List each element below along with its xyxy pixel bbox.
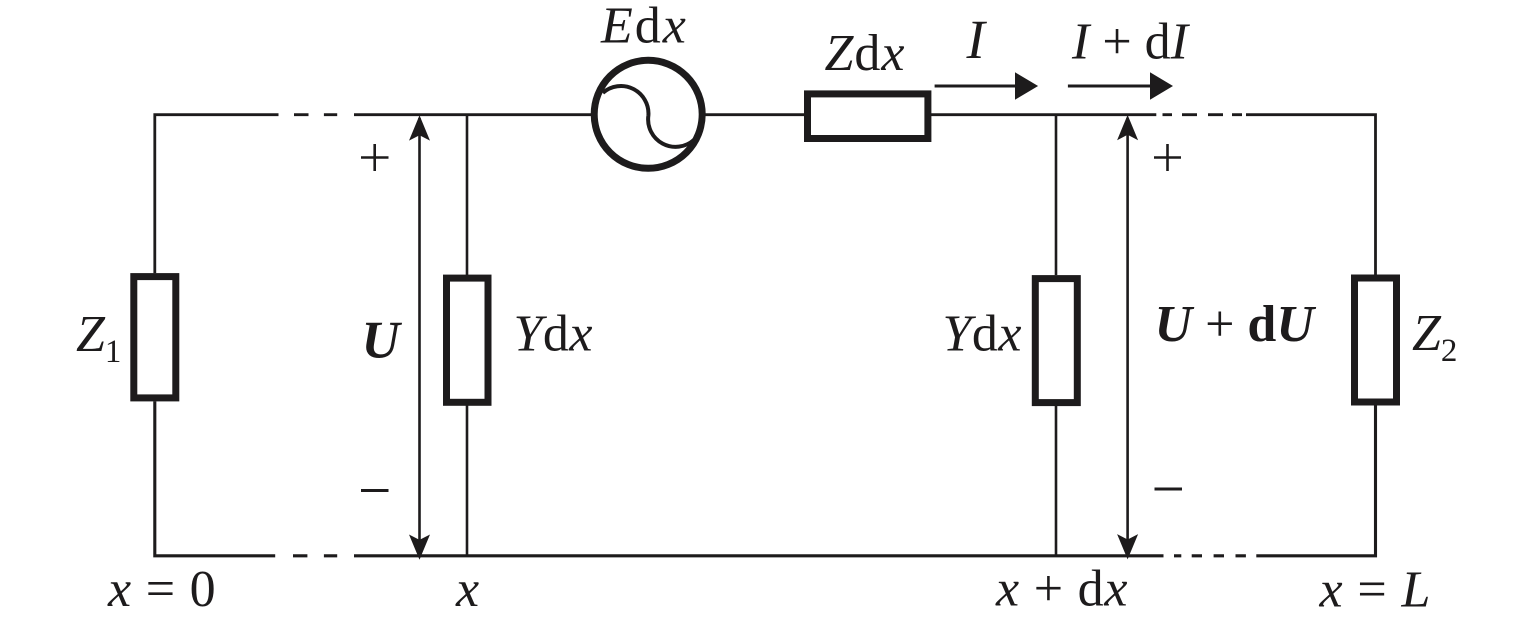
wire shunt branch at x+dx bottom — [1055, 403, 1058, 556]
wire top-left rail with left corner — [155, 115, 279, 274]
wire bottom-left dashed section — [293, 554, 337, 557]
wire top-left dashed section — [294, 113, 337, 116]
wire bottom-right dashed section — [1174, 554, 1246, 557]
svg-text:Ydx: Ydx — [514, 306, 594, 363]
svg-text:Edx: Edx — [600, 0, 688, 55]
svg-text:Ydx: Ydx — [943, 306, 1023, 363]
admittance Ydx right body — [1035, 279, 1077, 403]
minus sign at node x+dx — [1155, 488, 1183, 491]
wire Zdx to node x+dx — [929, 113, 1156, 116]
voltage arrow U+dU head down — [1117, 534, 1138, 559]
wire bottom-left rail — [155, 401, 275, 555]
wire shunt branch at x bottom — [466, 402, 469, 556]
wire AC source to Zdx — [703, 113, 806, 116]
plus sign at node x+dx — [1154, 144, 1181, 171]
wire top-right rail with right corner — [1246, 115, 1376, 275]
impedance Z1 body — [134, 277, 176, 398]
series impedance Zdx body — [808, 94, 928, 139]
current arrow I+dI head — [1150, 72, 1173, 99]
voltage arrow U head up — [409, 115, 430, 140]
minus sign at node x — [361, 489, 389, 492]
svg-text:U: U — [362, 312, 403, 370]
admittance Ydx left body — [447, 278, 489, 402]
wire shunt branch at x+dx top — [1055, 115, 1058, 275]
current arrow I head — [1015, 72, 1038, 99]
svg-text:x = 0: x = 0 — [107, 561, 216, 618]
plus sign at node x — [361, 144, 389, 171]
voltage arrow U head down — [409, 535, 430, 560]
wire shunt branch at x top — [466, 115, 469, 275]
wire bottom-right rail with right corner — [1256, 402, 1375, 556]
AC source sine wave — [603, 86, 694, 147]
current arrow I+dI shaft — [1068, 85, 1152, 88]
voltage arrow U shaft — [418, 118, 421, 556]
svg-text:x + dx: x + dx — [995, 561, 1128, 618]
wire top rail to AC source — [354, 113, 596, 116]
voltage arrow U+dU shaft — [1126, 118, 1129, 556]
current arrow I shaft — [935, 85, 1018, 88]
voltage arrow U+dU head up — [1117, 115, 1138, 140]
wire top-right dashed section — [1163, 113, 1243, 116]
svg-text:I + dI: I + dI — [1071, 14, 1191, 71]
svg-text:x: x — [455, 561, 479, 618]
wire bottom middle rail — [354, 554, 1164, 557]
AC source E circle — [594, 60, 702, 168]
impedance Z2 body — [1355, 278, 1397, 402]
svg-text:x = L: x = L — [1319, 562, 1432, 619]
svg-text:U + dU: U + dU — [1155, 296, 1317, 353]
svg-text:I: I — [966, 9, 988, 70]
svg-text:Zdx: Zdx — [825, 25, 906, 82]
svg-text:Z2: Z2 — [1412, 305, 1457, 369]
svg-text:Z1: Z1 — [76, 306, 121, 370]
